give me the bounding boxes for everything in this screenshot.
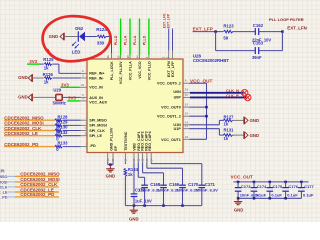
svg-text:GND: GND — [250, 118, 260, 123]
svg-text:1uF_10V: 1uF_10V — [135, 198, 152, 203]
svg-text:REF_IN-: REF_IN- — [89, 76, 104, 80]
svg-text:U0N: U0N — [173, 90, 181, 94]
svg-text:R125: R125 — [43, 57, 54, 62]
svg-text:CDCE62002_LE: CDCE62002_LE — [4, 131, 38, 136]
svg-text:SPI_MISO: SPI_MISO — [89, 119, 107, 123]
svg-text:0.1uF: 0.1uF — [287, 193, 298, 198]
svg-text:VBB: VBB — [133, 143, 137, 151]
svg-text:1k: 1k — [224, 136, 229, 141]
svg-text:VCC_OUT1: VCC_OUT1 — [161, 138, 181, 142]
svg-text:R132: R132 — [58, 130, 69, 135]
svg-text:AUX_IN: AUX_IN — [89, 96, 103, 100]
svg-text:GND: GND — [18, 75, 28, 80]
svg-text:VCC_PLL10V: VCC_PLL10V — [119, 61, 123, 84]
svg-text:C175: C175 — [273, 184, 283, 189]
svg-text:VCC_AUX: VCC_AUX — [89, 101, 107, 105]
svg-text:CDCE62002RHBT: CDCE62002RHBT — [193, 58, 229, 63]
svg-text:R123: R123 — [223, 24, 234, 29]
svg-text:02_LE: 02_LE — [0, 190, 8, 194]
svg-text:U29: U29 — [53, 88, 61, 93]
svg-text:D52: D52 — [75, 26, 83, 31]
svg-text:SPI_LE: SPI_LE — [89, 134, 102, 138]
svg-text:EXT_LFN: EXT_LFN — [287, 25, 307, 30]
svg-text:GND_PLL10V: GND_PLL10V — [109, 127, 113, 151]
svg-text:GND: GND — [106, 173, 116, 178]
svg-text:3V3: 3V3 — [29, 59, 37, 64]
svg-text:CDCE62002_MISO: CDCE62002_MISO — [20, 172, 60, 177]
svg-text:PLL_LOCK: PLL_LOCK — [110, 61, 114, 80]
svg-text:R127: R127 — [224, 114, 235, 119]
svg-text:PLLA: PLLA — [133, 35, 137, 45]
svg-text:3V3: 3V3 — [61, 82, 69, 87]
svg-text:GND: GND — [49, 34, 59, 39]
svg-text:C174: C174 — [257, 184, 267, 189]
svg-text:C162: C162 — [253, 23, 264, 28]
svg-text:PI: PI — [1, 168, 5, 173]
svg-text:VCC_OUT0_2: VCC_OUT0_2 — [157, 82, 181, 86]
svg-text:0.1uF: 0.1uF — [256, 193, 267, 198]
svg-text:CDCE62002_PD: CDCE62002_PD — [4, 142, 39, 147]
svg-text:TESTSYNC: TESTSYNC — [124, 131, 128, 151]
svg-text:C_CLK: C_CLK — [0, 185, 8, 189]
svg-text:SPI_MOSI: SPI_MOSI — [89, 124, 106, 128]
svg-text:EP: EP — [114, 145, 118, 150]
svg-text:VCC_PLLA: VCC_PLLA — [128, 61, 132, 80]
svg-text:PLLD: PLLD — [143, 35, 147, 45]
svg-text:PLL LOOP FILTER: PLL LOOP FILTER — [269, 17, 304, 22]
svg-text:39nF: 39nF — [252, 55, 262, 60]
svg-text:50MHz: 50MHz — [53, 101, 66, 106]
svg-text:U1P: U1P — [174, 127, 182, 131]
svg-text:U0P: U0P — [174, 96, 182, 100]
svg-text:EXT_LFP: EXT_LFP — [171, 61, 175, 77]
svg-text:GND: GND — [234, 208, 244, 213]
svg-text:PLLD: PLLD — [114, 35, 118, 45]
svg-text:EXT_LFP: EXT_LFP — [166, 13, 170, 28]
svg-text:SPI_CLK: SPI_CLK — [89, 129, 105, 133]
svg-text:VCC_OUT: VCC_OUT — [190, 78, 213, 83]
svg-text:0.1uF: 0.1uF — [303, 193, 314, 198]
svg-text:_MISO: _MISO — [0, 175, 8, 179]
svg-text:C177: C177 — [304, 184, 314, 189]
svg-text:VCC_OUT1_2: VCC_OUT1_2 — [157, 115, 181, 119]
svg-text:VCC_VCO: VCC_VCO — [138, 61, 142, 79]
svg-text:1k: 1k — [44, 79, 49, 84]
svg-text:VCC_IN: VCC_IN — [89, 86, 103, 90]
svg-text:REO_CAP4: REO_CAP4 — [148, 131, 152, 150]
svg-text:1k: 1k — [224, 122, 229, 127]
svg-text:-PD: -PD — [89, 144, 96, 148]
svg-text:LED: LED — [72, 50, 81, 55]
svg-text:R131: R131 — [224, 127, 235, 132]
svg-text:VCC_OUT: VCC_OUT — [231, 174, 254, 179]
svg-text:1k: 1k — [44, 65, 49, 70]
svg-text:CLK_P: CLK_P — [226, 93, 239, 98]
svg-text:0.1uF: 0.1uF — [271, 193, 282, 198]
svg-text:VCC_OUT0: VCC_OUT0 — [161, 105, 181, 109]
svg-text:C176: C176 — [288, 184, 298, 189]
svg-text:R126: R126 — [43, 72, 54, 77]
svg-text:GND: GND — [18, 95, 28, 100]
svg-text:C163: C163 — [253, 41, 264, 46]
svg-text:GND: GND — [129, 216, 139, 221]
svg-text:02_PD: 02_PD — [0, 195, 8, 199]
svg-text:_MOSI: _MOSI — [0, 180, 8, 184]
svg-text:PLLA: PLLA — [124, 35, 128, 45]
svg-text:EXT_LFP: EXT_LFP — [193, 26, 213, 31]
svg-text:330: 330 — [97, 40, 105, 45]
svg-text:R133: R133 — [58, 141, 69, 146]
svg-text:100nF_6.3V: 100nF_6.3V — [196, 187, 218, 192]
svg-text:R134: R134 — [128, 167, 139, 172]
svg-text:59: 59 — [223, 36, 228, 41]
svg-text:1k: 1k — [128, 172, 133, 177]
svg-text:REF_IN+: REF_IN+ — [89, 72, 104, 76]
svg-text:3V3: 3V3 — [68, 96, 76, 101]
svg-text:CDCE62002_PD: CDCE62002_PD — [20, 192, 55, 197]
svg-text:VCC_PLLD: VCC_PLLD — [147, 61, 151, 80]
svg-text:GND: GND — [250, 133, 260, 138]
svg-text:C173: C173 — [241, 184, 251, 189]
